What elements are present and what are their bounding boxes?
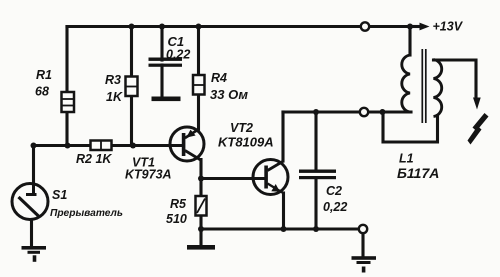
junction: base rail / R3 <box>130 143 136 149</box>
wire: middle rail to transformer <box>283 110 411 113</box>
resistor R5 <box>196 196 207 216</box>
svg-text:510: 510 <box>166 212 187 226</box>
wire: C2 branch upper <box>314 112 317 170</box>
ground: C1 bar <box>152 97 181 102</box>
label: R1 value <box>35 68 52 99</box>
wire: base rail (S1 to VT1 base) <box>33 144 182 147</box>
svg-text:R3: R3 <box>105 73 121 87</box>
ground: R5 bar <box>187 245 215 250</box>
label: VT2 type <box>218 121 274 150</box>
junction: VT1 emitter node <box>198 176 204 182</box>
wire: +13V arrow stem <box>410 25 421 28</box>
label: C1 value <box>166 34 190 62</box>
label: S1 name <box>50 188 123 219</box>
inductor L1 primary winding <box>402 55 410 112</box>
capacitor C1 <box>149 58 183 67</box>
junction: top rail / C1 <box>159 24 165 30</box>
resistor R1 <box>62 92 75 112</box>
label: VT1 type <box>125 156 172 182</box>
wire: +13V top rail <box>67 25 410 28</box>
wire: secondary bottom return U <box>383 112 438 142</box>
arrow head: HV output down <box>473 98 481 110</box>
svg-text:68: 68 <box>35 85 49 99</box>
ground: bottom right <box>352 256 377 272</box>
resistor R4 <box>193 75 205 95</box>
transistor VT2 <box>253 160 288 195</box>
ground: S1 <box>22 246 47 262</box>
svg-text:KT973A: KT973A <box>125 168 172 182</box>
wire: bottom rail <box>201 227 359 230</box>
junction: top rail / R4 <box>196 24 202 30</box>
inductor L1 secondary winding <box>434 60 442 117</box>
svg-text:R5: R5 <box>170 197 187 211</box>
wire: C2 branch lower <box>314 179 317 229</box>
junction: base rail / R1 <box>65 143 71 149</box>
label: C2 value <box>323 184 347 214</box>
svg-text:L1: L1 <box>399 152 414 166</box>
svg-text:0,22: 0,22 <box>166 48 190 62</box>
transistor VT1 <box>170 127 204 161</box>
wire: VT1 lower lead to R5 and ground <box>199 160 202 246</box>
svg-text:1K: 1K <box>106 90 123 104</box>
resistor R3 <box>126 77 138 97</box>
junction: top rail / transformer primary <box>407 24 413 30</box>
resistor R2 <box>91 141 112 151</box>
wire: VT2 collector riser <box>281 112 284 161</box>
capacitor C2 <box>299 170 336 180</box>
junction: middle rail / C2 <box>313 109 319 115</box>
wire: VT2 emitter drop <box>282 193 285 229</box>
svg-text:Прерыватель: Прерыватель <box>50 208 123 219</box>
svg-text:KT8109A: KT8109A <box>218 135 274 150</box>
label: R3 value <box>105 73 123 104</box>
svg-text:33 Ом: 33 Ом <box>210 87 248 102</box>
wire: transformer primary top leg <box>408 27 411 56</box>
wire: R3 branch <box>130 27 133 146</box>
svg-text:R1: R1 <box>36 68 52 82</box>
wire: VT1 to VT2 base <box>201 177 264 180</box>
wire: R4 / VT1 collector branch <box>197 27 200 130</box>
svg-text:VT2: VT2 <box>230 121 253 135</box>
wire: left drop to base rail <box>65 27 68 146</box>
inductor L1 core <box>422 49 426 123</box>
svg-text:0,22: 0,22 <box>323 200 347 214</box>
svg-text:S1: S1 <box>52 188 67 202</box>
label: R4 value <box>210 71 248 102</box>
svg-text:Б117А: Б117А <box>397 165 439 181</box>
junction: bottom rail / R5 <box>198 226 204 232</box>
svg-text:+13V: +13V <box>433 20 464 34</box>
terminal: top rail connector <box>361 22 369 30</box>
junction: base rail / S1 <box>31 143 37 149</box>
label: R5 value <box>166 197 187 226</box>
wire: secondary top lead <box>434 60 477 97</box>
terminal: middle rail connector <box>360 108 368 116</box>
junction: middle rail / secondary return <box>380 109 386 115</box>
arrow head: +13V supply <box>420 23 430 31</box>
svg-text:R2 1K: R2 1K <box>76 152 112 166</box>
spark gap bolt <box>473 113 489 131</box>
wire: right ground drop <box>361 234 364 257</box>
wire: S1 upper lead <box>32 146 35 195</box>
wire: C1 branch upper <box>160 27 163 61</box>
wire: S1 lower lead <box>30 219 33 246</box>
label: L1 type <box>397 152 439 182</box>
junction: bottom rail / C2 <box>313 226 319 232</box>
wire: C1 branch lower <box>160 65 163 97</box>
svg-text:C2: C2 <box>326 184 342 198</box>
svg-text:R4: R4 <box>211 71 227 85</box>
switch S1 (breaker) <box>12 184 48 220</box>
junction: bottom rail / VT2 emitter <box>281 226 287 232</box>
junction: top rail / R3 <box>129 24 135 30</box>
terminal: bottom rail connector <box>359 225 367 233</box>
